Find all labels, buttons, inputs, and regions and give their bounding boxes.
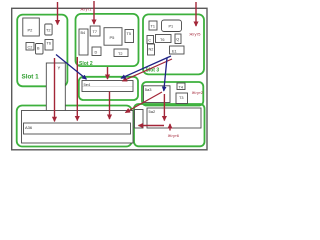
svg-text:T7: T7 (93, 30, 97, 34)
fuse P2 (23, 18, 40, 36)
svg-text:Жгут6: Жгут6 (168, 133, 180, 138)
relay Y2 tall box (46, 63, 65, 114)
svg-text:Жгут5: Жгут5 (189, 32, 201, 37)
svg-text:Q: Q (176, 38, 179, 42)
svg-text:T4: T4 (179, 85, 183, 89)
relay box 5e4 (82, 81, 133, 92)
connector block Slot 3 (143, 14, 204, 74)
fuse D3 (92, 47, 101, 56)
blue arrow down into 5a3 (164, 58, 167, 91)
svg-text:Slot 1: Slot 1 (22, 74, 40, 81)
svg-text:T3: T3 (179, 96, 183, 100)
outer panel border (12, 8, 207, 150)
fuse N2 (148, 44, 155, 55)
svg-text:Y: Y (58, 66, 61, 71)
svg-text:A36: A36 (25, 125, 33, 130)
red diagonal arrow to 5e4 right (123, 59, 173, 81)
fuse T4 (177, 83, 185, 90)
red arrow down from 5e4 bottom (109, 92, 111, 120)
connector block Slot 2 (76, 14, 139, 66)
svg-text:Slot 2: Slot 2 (79, 61, 93, 67)
fuse T5 (125, 30, 134, 43)
relay holder green box mid-right (142, 82, 203, 106)
bottom-left green box (17, 106, 132, 147)
fuse C1 (147, 36, 154, 44)
svg-text:T1: T1 (151, 25, 155, 29)
relay holder green box Se4 (79, 77, 138, 100)
red arrow into Slot 3 (195, 2, 197, 26)
red arrow down into 5a2 (163, 94, 165, 121)
svg-text:C2: C2 (28, 46, 33, 50)
relay box 5a2 (147, 108, 201, 128)
svg-text:5a2: 5a2 (149, 109, 156, 114)
fuse Q (175, 34, 181, 44)
fuse T2b (114, 49, 128, 57)
svg-text:P1: P1 (169, 25, 174, 29)
blue arrow to 5e4 area from slot3 (121, 56, 171, 78)
connector block Slot 1 (17, 15, 67, 87)
red arrow into box 5e4 (107, 67, 109, 79)
fuse E1 (170, 46, 185, 54)
red arrow into Slot 1 (57, 2, 59, 25)
red arrow down at slot2 left (76, 57, 78, 121)
svg-text:T6: T6 (160, 38, 164, 42)
fuse B4 (79, 29, 88, 55)
connector strip A36 (24, 123, 131, 134)
small box at Sa2 left (135, 110, 144, 129)
blue arrow to 5e4 left (56, 55, 87, 80)
svg-text:N2: N2 (149, 48, 154, 52)
svg-text:5a3: 5a3 (145, 87, 152, 92)
fuse T6 (45, 40, 53, 51)
fuse T7 (90, 26, 100, 36)
svg-text:C: C (148, 39, 151, 43)
svg-text:T2: T2 (46, 29, 50, 33)
relay P5 (104, 28, 122, 46)
bottom-right green box Sa2 (134, 104, 205, 146)
red arrow down through relay Y2 (54, 58, 56, 121)
svg-text:P5: P5 (110, 35, 116, 40)
svg-text:T5: T5 (127, 32, 131, 36)
fuse T6b (156, 35, 172, 43)
svg-text:D: D (95, 51, 98, 55)
red arrow left inside 5a2 (139, 125, 165, 127)
red diagonal arrow to A36 (126, 92, 163, 113)
relay box 5a3 (144, 86, 171, 103)
fuse T3 (176, 93, 188, 104)
svg-text:Жгут1: Жгут1 (80, 7, 92, 12)
red arrow into Slot 2 (93, 1, 95, 24)
fuse B3 (36, 44, 44, 55)
fuse C2 (26, 43, 34, 51)
svg-text:T6: T6 (47, 42, 51, 46)
red arrow up from Жгут6 (169, 124, 171, 131)
svg-text:P2: P2 (28, 28, 34, 33)
fuse T1 (149, 21, 157, 30)
svg-text:Жгут2: Жгут2 (192, 90, 204, 95)
fuse T2 (45, 24, 52, 35)
bottom connector outer box (22, 111, 134, 144)
svg-text:T2: T2 (118, 52, 122, 56)
relay P1 (162, 20, 182, 32)
svg-text:E1: E1 (172, 49, 177, 53)
svg-text:B4: B4 (81, 31, 86, 35)
